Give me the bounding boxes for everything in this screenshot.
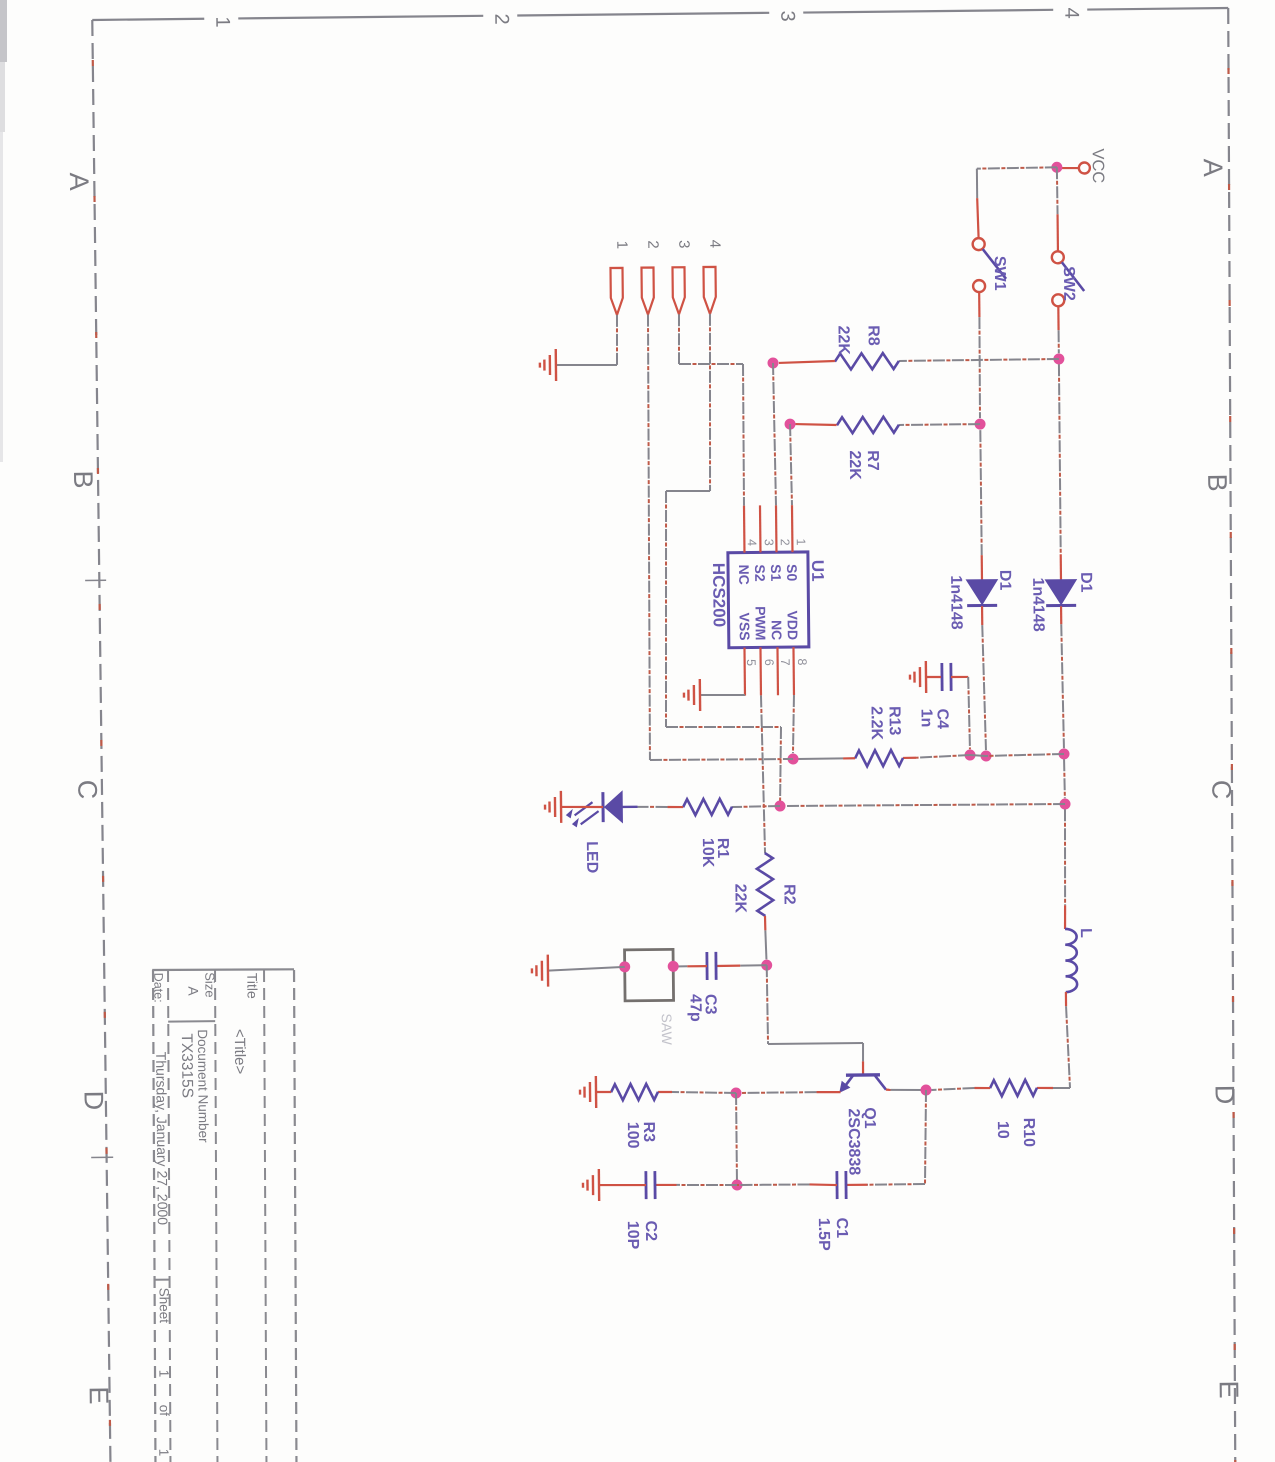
- node VCC junction: [1051, 162, 1062, 173]
- wire pin1 to ground: [616, 315, 617, 365]
- node box bottom: [619, 961, 630, 972]
- wire box to ground: [548, 967, 625, 971]
- svg-text:22K: 22K: [846, 450, 863, 480]
- svg-text:C: C: [72, 780, 102, 800]
- svg-text:R3: R3: [640, 1122, 657, 1143]
- ground at box: [547, 955, 550, 987]
- svg-text:C3: C3: [702, 994, 719, 1015]
- wire VCC to SW2: [1056, 167, 1059, 214]
- node R2/C3 junction: [761, 960, 772, 971]
- wire C3 to box: [687, 965, 707, 967]
- node C2/C1 junction: [731, 1179, 742, 1190]
- wire LED to ground: [561, 805, 603, 808]
- wire C4 to ground: [926, 676, 941, 679]
- resistor R2 22K: [757, 853, 774, 916]
- svg-text:2.2K: 2.2K: [867, 706, 884, 740]
- svg-text:S2: S2: [752, 564, 768, 582]
- capacitor C2 10P: [677, 1184, 738, 1185]
- svg-text:E: E: [84, 1386, 114, 1404]
- svg-text:47p: 47p: [687, 994, 704, 1022]
- node R7/S0 junction: [784, 419, 795, 430]
- svg-text:U1: U1: [808, 560, 827, 582]
- wire pin2 to VDD node: [645, 315, 652, 760]
- svg-text:1: 1: [794, 538, 808, 545]
- svg-text:B: B: [1202, 473, 1232, 491]
- U1 pin 6 PWM: [759, 647, 762, 695]
- wire S1 from R8: [773, 363, 776, 505]
- U1 pin 5 VSS: [743, 648, 746, 696]
- svg-text:PWM: PWM: [752, 606, 768, 640]
- U1 pin 1 S0: [791, 505, 794, 552]
- wire PWM to R2: [761, 695, 765, 853]
- node LED/R1/pin4 junction: [774, 800, 785, 811]
- ground at C4: [925, 661, 928, 693]
- svg-text:3: 3: [762, 539, 776, 546]
- svg-text:R10: R10: [1020, 1118, 1037, 1148]
- resonator box: [625, 949, 674, 1001]
- svg-text:4: 4: [706, 240, 723, 249]
- svg-text:8: 8: [795, 658, 809, 665]
- svg-text:R13: R13: [885, 706, 902, 736]
- wire SW1 output: [978, 292, 980, 317]
- svg-text:SW1: SW1: [991, 256, 1008, 291]
- inductor L: [1065, 929, 1077, 992]
- ground at LED: [560, 791, 563, 823]
- svg-text:1: 1: [156, 1370, 171, 1378]
- U1 pin 7 NC: [776, 647, 779, 695]
- node SW2/R8 junction: [1053, 353, 1064, 364]
- svg-text:A: A: [185, 986, 201, 996]
- resistor R7 22K: [899, 423, 980, 426]
- resistor R13 2.2K: [855, 750, 903, 767]
- svg-text:TX3315S: TX3315S: [178, 1033, 196, 1098]
- svg-text:B: B: [68, 470, 98, 488]
- svg-text:R2: R2: [780, 884, 797, 905]
- svg-text:D1: D1: [996, 570, 1013, 591]
- switch SW2: [1052, 251, 1064, 263]
- wire S0 from R7: [790, 424, 792, 505]
- ground at C2: [598, 1169, 601, 1201]
- wire SW2 output: [1057, 306, 1059, 330]
- svg-text:E: E: [1214, 1380, 1244, 1398]
- wire SW1 rail to D1: [980, 430, 981, 555]
- node rail/R13 junction: [1058, 748, 1069, 759]
- svg-text:1: 1: [613, 241, 630, 250]
- svg-text:S1: S1: [768, 564, 784, 582]
- wire D1 lower cathode: [981, 606, 983, 625]
- resistor R3 100: [672, 1091, 736, 1093]
- svg-text:Date:: Date:: [151, 973, 165, 1003]
- node box top: [668, 961, 679, 972]
- wire Q1 emitter: [817, 1091, 841, 1094]
- wire pin3 to U1 pin4: [678, 314, 679, 364]
- svg-text:2: 2: [490, 13, 512, 24]
- node emitter junction: [730, 1087, 741, 1098]
- svg-text:SW2: SW2: [1060, 266, 1077, 301]
- zone tick marks: [85, 579, 106, 581]
- sheet border frame: [1087, 8, 1228, 10]
- svg-text:R8: R8: [865, 325, 882, 346]
- wire Q1 collector: [886, 1088, 891, 1091]
- svg-text:D1: D1: [1077, 572, 1094, 593]
- connector pin 2: [641, 268, 653, 315]
- svg-text:of: of: [157, 1405, 172, 1417]
- node collector junction: [920, 1084, 931, 1095]
- wire VDD pin to node: [792, 695, 794, 753]
- connector pin 1: [610, 268, 622, 315]
- svg-text:1n4148: 1n4148: [1029, 577, 1047, 632]
- svg-text:C1: C1: [833, 1218, 850, 1239]
- wire inductor to R10: [1065, 992, 1067, 1006]
- svg-text:NC: NC: [769, 620, 785, 640]
- svg-text:R1: R1: [714, 838, 731, 859]
- wire C3 node to Q1 base: [767, 965, 768, 1044]
- node SW1/R7 junction: [974, 419, 985, 430]
- svg-text:C: C: [1206, 780, 1236, 800]
- IC U1 HCS200 box: [728, 552, 809, 648]
- wire base node to C2/C1: [735, 1093, 738, 1185]
- svg-text:1n4148: 1n4148: [947, 575, 965, 630]
- svg-text:C2: C2: [642, 1221, 659, 1242]
- transistor Q1 2SC3838: [846, 1073, 880, 1077]
- svg-text:6: 6: [762, 659, 776, 666]
- svg-text:2: 2: [644, 240, 661, 249]
- svg-text:VCC: VCC: [1089, 148, 1107, 183]
- svg-text:NC: NC: [736, 565, 752, 585]
- svg-text:D: D: [1209, 1085, 1239, 1105]
- connector pin 3: [672, 267, 684, 314]
- wire pin4 to LED node: [708, 314, 712, 491]
- scan edge artifact: [0, 0, 7, 62]
- diode D1 lower 1n4148: [967, 580, 997, 604]
- node VDD junction: [787, 753, 798, 764]
- svg-text:3: 3: [776, 10, 798, 21]
- resistor R1 10K: [732, 806, 780, 807]
- capacitor C4 1n: [949, 663, 952, 691]
- svg-text:Title: Title: [244, 973, 260, 999]
- node C4 junction: [964, 749, 975, 760]
- ground at pin1: [555, 349, 558, 381]
- diode D1 upper 1n4148: [1046, 580, 1076, 604]
- capacitor C1 1.5P: [924, 1090, 927, 1184]
- svg-text:3: 3: [675, 240, 692, 249]
- U1 pin 4 NC: [743, 506, 746, 553]
- svg-text:5: 5: [744, 659, 758, 666]
- svg-text:C4: C4: [934, 708, 951, 729]
- svg-text:R7: R7: [864, 450, 881, 471]
- svg-text:A: A: [1198, 158, 1228, 176]
- power symbol VCC: [1079, 162, 1090, 173]
- svg-text:10: 10: [994, 1121, 1011, 1139]
- svg-text:SAW: SAW: [659, 1013, 675, 1045]
- wire VDD column upper: [986, 754, 1064, 756]
- ground at VSS: [699, 679, 702, 711]
- svg-text:7: 7: [778, 659, 792, 666]
- svg-text:10P: 10P: [624, 1221, 641, 1250]
- svg-text:VDD: VDD: [784, 610, 800, 640]
- svg-text:22K: 22K: [731, 884, 748, 914]
- svg-text:Thursday, January 27, 2000: Thursday, January 27, 2000: [153, 1052, 171, 1226]
- U1 pin 8 VDD: [792, 647, 795, 695]
- svg-text:4: 4: [745, 539, 759, 546]
- svg-text:1n: 1n: [918, 709, 935, 728]
- svg-text:4: 4: [1060, 7, 1082, 18]
- resistor R8 22K: [899, 359, 1059, 361]
- svg-text:<Title>: <Title>: [231, 1029, 248, 1075]
- wire SW2 rail to D1: [1059, 364, 1061, 554]
- svg-text:22K: 22K: [835, 325, 852, 355]
- wire VCC stub: [1062, 167, 1079, 170]
- svg-text:10K: 10K: [699, 838, 716, 868]
- svg-text:L: L: [1077, 928, 1094, 938]
- wire LED column from rail: [786, 803, 1065, 807]
- svg-text:2: 2: [778, 539, 792, 546]
- node D1/C4/R13 junction: [980, 750, 991, 761]
- node R8/S1 junction: [767, 357, 778, 368]
- wire VCC down to SW1: [977, 167, 1057, 168]
- resistor R10 10: [1053, 1087, 1070, 1089]
- wire rail to LED junction: [1063, 759, 1066, 798]
- wire to SW1 contact: [976, 169, 978, 198]
- connector pin 4: [703, 267, 715, 314]
- svg-text:1: 1: [156, 1449, 171, 1457]
- wire rail to inductor: [1064, 809, 1066, 905]
- svg-text:1: 1: [211, 16, 233, 27]
- svg-text:A: A: [64, 172, 94, 190]
- svg-text:2SC3838: 2SC3838: [845, 1108, 863, 1175]
- svg-text:100: 100: [624, 1122, 641, 1149]
- svg-text:Size: Size: [202, 972, 217, 997]
- svg-text:VSS: VSS: [737, 612, 753, 640]
- svg-text:HCS200: HCS200: [709, 563, 729, 627]
- switch SW1: [973, 238, 985, 250]
- U1 pin 3 S2: [759, 505, 762, 552]
- svg-text:Q1: Q1: [861, 1107, 878, 1129]
- LED arrows: [581, 811, 599, 824]
- svg-text:Document Number: Document Number: [195, 1029, 211, 1143]
- capacitor C3 47p: [740, 964, 767, 966]
- title block: [291, 970, 299, 1462]
- wire D1 upper cathode: [1060, 606, 1062, 624]
- svg-text:D: D: [78, 1091, 108, 1111]
- U1 pin 2 S1: [775, 505, 778, 552]
- svg-text:S0: S0: [784, 564, 800, 582]
- svg-text:Sheet: Sheet: [157, 1288, 172, 1324]
- svg-text:LED: LED: [583, 841, 600, 873]
- svg-text:1.5P: 1.5P: [815, 1218, 832, 1251]
- ground at R3: [595, 1076, 598, 1108]
- wire C4 top: [951, 676, 968, 678]
- wire VSS to ground: [700, 693, 745, 696]
- LED diode: [622, 806, 637, 809]
- node rail/LED junction: [1059, 798, 1070, 809]
